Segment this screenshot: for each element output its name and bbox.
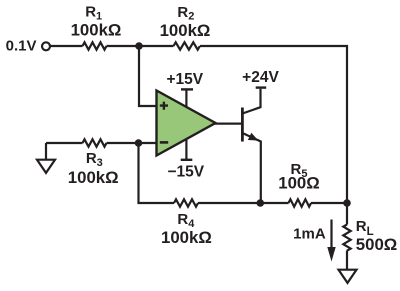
svg-text:500Ω: 500Ω [356,235,397,254]
svg-text:1mA: 1mA [293,226,326,243]
svg-text:100kΩ: 100kΩ [71,20,122,39]
svg-text:+24V: +24V [242,69,279,86]
svg-text:100kΩ: 100kΩ [161,228,212,247]
svg-text:+15V: +15V [166,71,203,88]
svg-text:−15V: −15V [167,163,204,180]
svg-text:0.1V: 0.1V [6,38,37,55]
svg-text:100Ω: 100Ω [278,174,319,193]
svg-text:100kΩ: 100kΩ [68,168,119,187]
svg-text:100kΩ: 100kΩ [160,21,211,40]
